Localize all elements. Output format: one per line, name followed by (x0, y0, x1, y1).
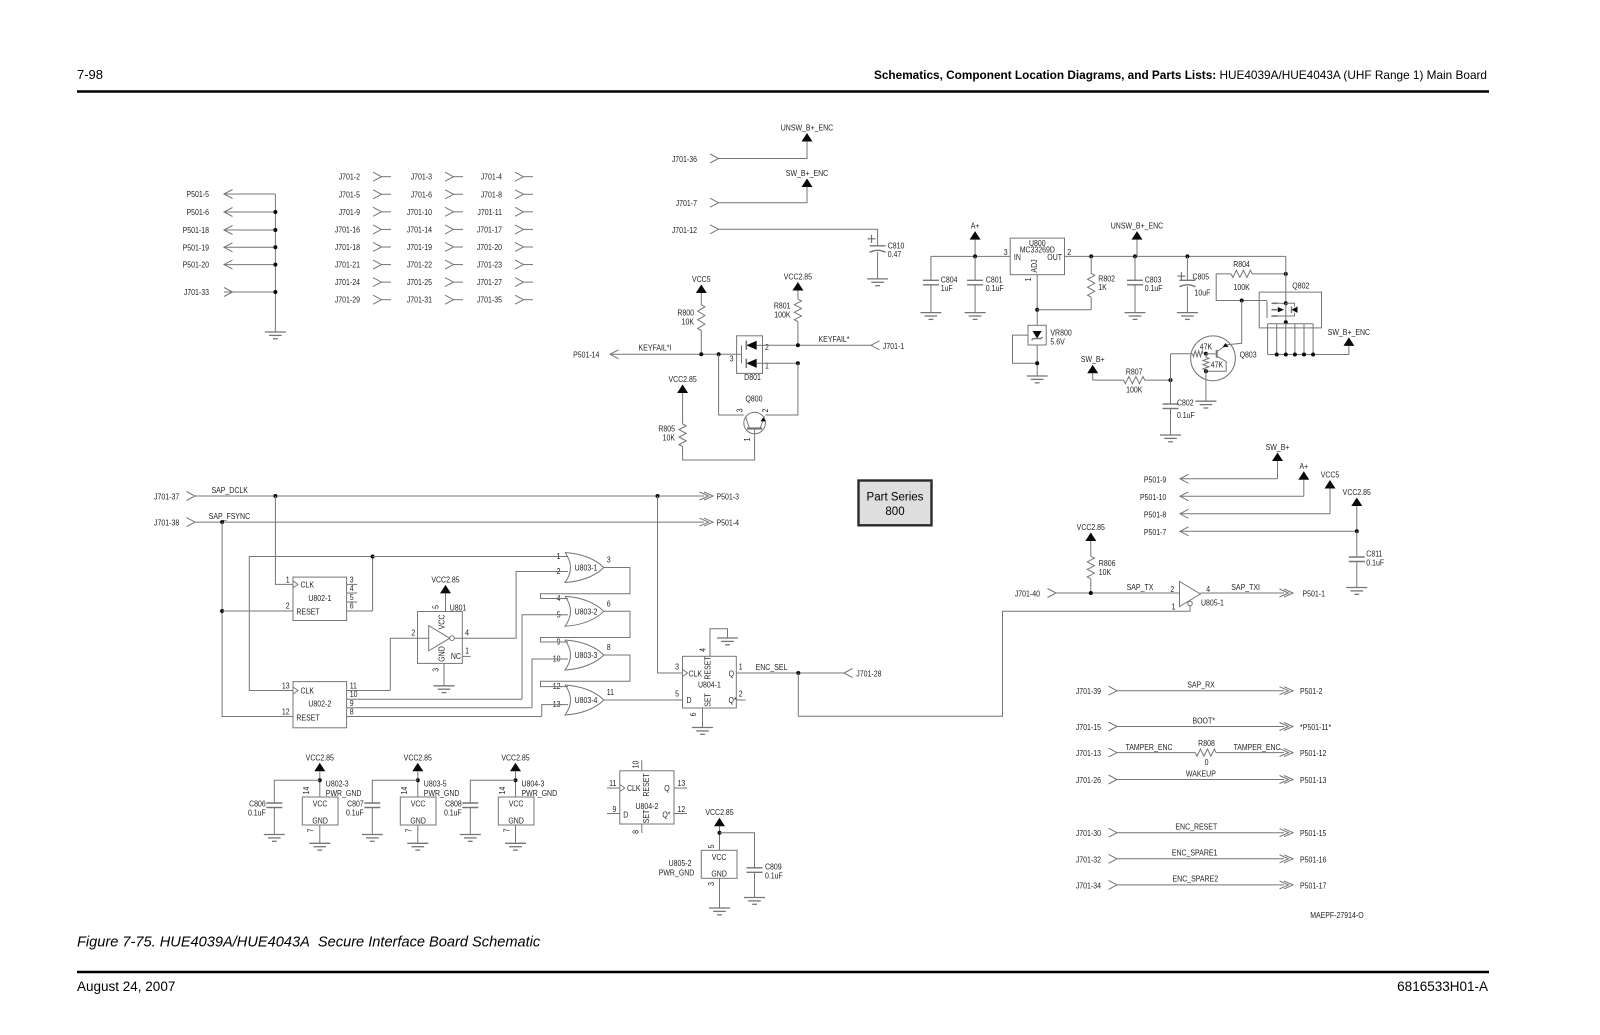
svg-text:GND: GND (410, 816, 426, 826)
svg-text:GND: GND (312, 816, 328, 826)
svg-text:U802-3: U802-3 (326, 779, 349, 789)
svg-text:J701-39: J701-39 (1076, 687, 1101, 697)
svg-text:Part Series: Part Series (867, 492, 924, 504)
svg-text:J701-1: J701-1 (883, 341, 904, 351)
svg-text:10K: 10K (1099, 567, 1112, 577)
svg-text:UNSW_B+_ENC: UNSW_B+_ENC (781, 123, 834, 133)
svg-text:3: 3 (735, 409, 745, 413)
svg-text:Q800: Q800 (745, 394, 762, 404)
svg-text:0.1uF: 0.1uF (765, 871, 783, 881)
svg-text:J701-10: J701-10 (407, 207, 432, 217)
svg-text:Schematics, Component Location: Schematics, Component Location Diagrams,… (874, 68, 1487, 82)
svg-text:3: 3 (607, 555, 611, 565)
svg-text:J701-13: J701-13 (1076, 749, 1101, 759)
svg-text:J701-8: J701-8 (481, 190, 502, 200)
svg-text:1: 1 (1172, 602, 1176, 612)
svg-text:14: 14 (497, 786, 507, 794)
svg-text:12: 12 (678, 804, 686, 814)
svg-text:J701-30: J701-30 (1076, 829, 1101, 839)
svg-text:1: 1 (557, 551, 561, 561)
svg-text:2: 2 (557, 566, 561, 576)
svg-text:0.1uF: 0.1uF (346, 808, 364, 818)
svg-text:14: 14 (399, 786, 409, 794)
svg-text:J701-24: J701-24 (335, 278, 361, 288)
svg-text:3: 3 (675, 662, 679, 672)
svg-text:U803-3: U803-3 (575, 650, 598, 660)
svg-text:MAEPF-27914-O: MAEPF-27914-O (1310, 910, 1363, 920)
svg-text:CLK: CLK (301, 580, 315, 590)
svg-text:J701-37: J701-37 (154, 492, 179, 502)
svg-text:1: 1 (465, 646, 469, 656)
svg-text:J701-20: J701-20 (477, 242, 502, 252)
svg-text:*P501-11*: *P501-11* (1300, 722, 1331, 732)
svg-text:U805-1: U805-1 (1201, 598, 1224, 608)
svg-text:U804-1: U804-1 (698, 680, 721, 690)
svg-text:P501-20: P501-20 (183, 260, 209, 270)
svg-text:0.1uF: 0.1uF (1366, 558, 1384, 568)
svg-text:J701-3: J701-3 (411, 172, 432, 182)
svg-text:A+: A+ (1299, 461, 1308, 471)
svg-text:J701-17: J701-17 (477, 225, 502, 235)
svg-text:KEYFAIL*I: KEYFAIL*I (639, 343, 672, 353)
svg-text:BOOT*: BOOT* (1192, 716, 1214, 726)
svg-text:1: 1 (742, 438, 752, 442)
svg-text:VCC: VCC (712, 852, 727, 862)
svg-text:1: 1 (1023, 278, 1033, 282)
svg-text:SAP_TX: SAP_TX (1127, 582, 1154, 592)
svg-text:13: 13 (282, 681, 290, 691)
svg-text:J701-23: J701-23 (477, 260, 502, 270)
svg-text:J701-18: J701-18 (335, 242, 360, 252)
svg-text:47K: 47K (1211, 360, 1224, 370)
svg-text:2: 2 (739, 689, 743, 699)
svg-text:P501-9: P501-9 (1144, 475, 1166, 485)
svg-text:3: 3 (706, 882, 716, 886)
svg-text:U804-3: U804-3 (522, 779, 545, 789)
svg-text:5: 5 (431, 605, 441, 609)
svg-text:13: 13 (678, 778, 686, 788)
svg-text:D: D (687, 696, 692, 706)
svg-text:7: 7 (502, 829, 512, 833)
svg-text:VCC: VCC (509, 799, 524, 809)
svg-text:0.1uF: 0.1uF (444, 808, 462, 818)
svg-text:4: 4 (465, 628, 470, 638)
svg-text:P501-19: P501-19 (183, 243, 209, 253)
svg-text:1K: 1K (1098, 282, 1107, 292)
svg-text:3: 3 (1004, 247, 1008, 257)
svg-text:P501-1: P501-1 (1303, 589, 1325, 599)
svg-text:VCC: VCC (411, 799, 426, 809)
svg-text:J701-6: J701-6 (411, 190, 432, 200)
svg-text:NC: NC (451, 652, 461, 662)
svg-text:VCC2.85: VCC2.85 (784, 272, 812, 282)
svg-text:P501-12: P501-12 (1300, 749, 1326, 759)
svg-text:VCC2.85: VCC2.85 (1077, 522, 1105, 532)
svg-text:3: 3 (730, 354, 734, 364)
svg-text:6: 6 (607, 599, 611, 609)
svg-text:D: D (623, 810, 628, 820)
svg-text:J701-28: J701-28 (856, 669, 881, 679)
svg-text:11: 11 (607, 687, 614, 697)
svg-text:VCC2.85: VCC2.85 (404, 753, 432, 763)
svg-text:ENC_RESET: ENC_RESET (1175, 822, 1217, 832)
svg-text:RESET: RESET (703, 656, 713, 680)
svg-text:100K: 100K (1233, 282, 1250, 292)
svg-text:10K: 10K (663, 433, 676, 443)
svg-text:VCC5: VCC5 (692, 274, 711, 284)
svg-text:P501-15: P501-15 (1300, 829, 1326, 839)
svg-text:J701-19: J701-19 (407, 242, 432, 252)
svg-text:SET: SET (641, 809, 651, 823)
svg-text:5: 5 (675, 689, 679, 699)
svg-text:R807: R807 (1126, 367, 1143, 377)
svg-text:6: 6 (688, 713, 698, 717)
svg-text:D801: D801 (744, 372, 761, 382)
svg-text:J701-7: J701-7 (676, 198, 697, 208)
svg-text:U802-1: U802-1 (308, 593, 331, 603)
svg-text:C802: C802 (1177, 398, 1194, 408)
svg-text:J701-22: J701-22 (407, 260, 432, 270)
svg-text:10K: 10K (682, 317, 695, 327)
svg-text:Q*: Q* (729, 696, 737, 706)
svg-text:10: 10 (631, 761, 641, 769)
svg-text:SW_B+: SW_B+ (1266, 442, 1290, 452)
svg-text:VCC2.85: VCC2.85 (668, 374, 696, 384)
svg-text:P501-3: P501-3 (717, 492, 739, 502)
svg-text:100K: 100K (774, 310, 791, 320)
svg-text:1: 1 (739, 662, 743, 672)
svg-text:J701-36: J701-36 (672, 154, 697, 164)
svg-text:J701-12: J701-12 (672, 225, 697, 235)
svg-text:2: 2 (1067, 247, 1071, 257)
svg-text:Q*: Q* (662, 810, 670, 820)
svg-text:J701-35: J701-35 (477, 295, 502, 305)
svg-text:CLK: CLK (301, 686, 315, 696)
svg-text:Q: Q (664, 784, 669, 794)
svg-text:J701-29: J701-29 (335, 295, 360, 305)
svg-text:ENC_SEL: ENC_SEL (756, 662, 788, 672)
svg-text:VCC2.85: VCC2.85 (431, 575, 459, 585)
svg-text:2: 2 (760, 409, 770, 413)
svg-text:800: 800 (885, 506, 904, 518)
svg-text:1uF: 1uF (941, 283, 953, 293)
svg-text:U803-5: U803-5 (424, 779, 447, 789)
svg-text:J701-14: J701-14 (407, 225, 433, 235)
svg-text:R804: R804 (1233, 259, 1250, 269)
svg-text:J701-27: J701-27 (477, 278, 502, 288)
svg-text:Figure 7-75. HUE4039A/HUE4043A: Figure 7-75. HUE4039A/HUE4043A Secure In… (77, 935, 541, 951)
svg-text:KEYFAIL*: KEYFAIL* (819, 334, 850, 344)
svg-text:PWR_GND: PWR_GND (659, 868, 695, 878)
svg-text:Q: Q (729, 669, 734, 679)
svg-text:J701-40: J701-40 (1015, 589, 1040, 599)
svg-text:C805: C805 (1193, 272, 1210, 282)
svg-text:J701-16: J701-16 (335, 225, 360, 235)
svg-text:IN: IN (1014, 252, 1021, 262)
svg-text:J701-11: J701-11 (477, 207, 502, 217)
svg-text:1: 1 (765, 361, 769, 371)
svg-text:ENC_SPARE1: ENC_SPARE1 (1172, 848, 1218, 858)
svg-text:VCC5: VCC5 (1321, 470, 1340, 480)
svg-text:P501-18: P501-18 (183, 225, 209, 235)
svg-text:10uF: 10uF (1195, 288, 1211, 298)
svg-text:TAMPER_ENC: TAMPER_ENC (1233, 742, 1281, 752)
svg-text:J701-2: J701-2 (339, 172, 360, 182)
svg-text:5.6V: 5.6V (1050, 337, 1065, 347)
svg-text:SAP_DCLK: SAP_DCLK (212, 485, 249, 495)
svg-text:GND: GND (437, 646, 447, 662)
svg-text:TAMPER_ENC: TAMPER_ENC (1125, 742, 1173, 752)
svg-text:11: 11 (609, 778, 616, 788)
svg-text:14: 14 (301, 786, 311, 794)
svg-text:P501-2: P501-2 (1300, 687, 1322, 697)
svg-text:VCC: VCC (313, 799, 328, 809)
svg-text:VCC: VCC (437, 614, 447, 629)
svg-text:100K: 100K (1126, 385, 1143, 395)
svg-text:6816533H01-A: 6816533H01-A (1397, 979, 1488, 994)
svg-text:SW_B+_ENC: SW_B+_ENC (786, 168, 829, 178)
svg-text:J701-34: J701-34 (1076, 881, 1102, 891)
svg-text:1: 1 (286, 575, 290, 585)
svg-text:GND: GND (711, 869, 727, 879)
svg-text:J701-25: J701-25 (407, 278, 432, 288)
svg-text:5: 5 (706, 845, 716, 849)
svg-text:P501-16: P501-16 (1300, 855, 1326, 865)
svg-text:0.1uF: 0.1uF (248, 808, 266, 818)
svg-text:U803-1: U803-1 (575, 563, 598, 573)
svg-text:VCC2.85: VCC2.85 (705, 808, 733, 818)
svg-text:47K: 47K (1200, 342, 1213, 352)
svg-text:A+: A+ (971, 221, 980, 231)
svg-text:7: 7 (404, 829, 414, 833)
svg-text:R808: R808 (1198, 739, 1215, 749)
svg-text:August 24, 2007: August 24, 2007 (77, 979, 175, 994)
svg-text:12: 12 (282, 707, 290, 717)
svg-text:J701-32: J701-32 (1076, 855, 1101, 865)
svg-text:P501-14: P501-14 (573, 350, 600, 360)
svg-text:UNSW_B+_ENC: UNSW_B+_ENC (1111, 221, 1164, 231)
svg-text:SAP_TXI: SAP_TXI (1231, 582, 1260, 592)
svg-text:P501-7: P501-7 (1144, 527, 1166, 537)
svg-text:P501-13: P501-13 (1300, 775, 1326, 785)
svg-text:0.1uF: 0.1uF (1145, 283, 1163, 293)
svg-text:P501-6: P501-6 (187, 207, 209, 217)
svg-text:P501-17: P501-17 (1300, 881, 1326, 891)
svg-text:ADJ: ADJ (1029, 259, 1039, 272)
svg-text:J701-33: J701-33 (184, 287, 209, 297)
svg-text:Q802: Q802 (1292, 281, 1309, 291)
svg-text:P501-8: P501-8 (1144, 510, 1166, 520)
svg-text:U804-2: U804-2 (635, 801, 658, 811)
svg-text:P501-5: P501-5 (187, 189, 209, 199)
svg-text:2: 2 (411, 628, 415, 638)
svg-text:2: 2 (765, 342, 769, 352)
svg-text:P501-4: P501-4 (717, 518, 740, 528)
svg-text:VCC2.85: VCC2.85 (1343, 487, 1371, 497)
svg-text:J701-5: J701-5 (339, 190, 360, 200)
svg-text:RESET: RESET (296, 713, 320, 723)
svg-text:ENC_SPARE2: ENC_SPARE2 (1173, 874, 1219, 884)
svg-text:J701-31: J701-31 (407, 295, 432, 305)
svg-text:U803-4: U803-4 (575, 695, 599, 705)
svg-text:SAP_FSYNC: SAP_FSYNC (209, 511, 251, 521)
svg-text:8: 8 (631, 830, 641, 834)
svg-text:0.1uF: 0.1uF (1177, 410, 1195, 420)
svg-text:J701-21: J701-21 (335, 260, 360, 270)
svg-text:U803-2: U803-2 (575, 607, 598, 617)
svg-text:J701-15: J701-15 (1076, 722, 1101, 732)
svg-text:GND: GND (508, 816, 524, 826)
svg-text:OUT: OUT (1047, 252, 1062, 262)
svg-text:VCC2.85: VCC2.85 (306, 753, 334, 763)
svg-text:CLK: CLK (627, 784, 641, 794)
svg-text:SW_B+: SW_B+ (1081, 355, 1105, 365)
svg-text:6: 6 (350, 601, 354, 611)
svg-text:CLK: CLK (689, 669, 703, 679)
svg-text:U805-2: U805-2 (669, 858, 692, 868)
svg-text:7-98: 7-98 (77, 67, 103, 82)
svg-text:J701-9: J701-9 (339, 207, 360, 217)
svg-text:RESET: RESET (296, 607, 320, 617)
svg-text:VCC2.85: VCC2.85 (501, 753, 529, 763)
svg-text:SW_B+_ENC: SW_B+_ENC (1328, 327, 1371, 337)
svg-text:U802-2: U802-2 (308, 699, 331, 709)
svg-text:J701-4: J701-4 (481, 172, 503, 182)
svg-text:3: 3 (431, 668, 441, 672)
svg-text:Q803: Q803 (1240, 350, 1257, 360)
svg-text:2: 2 (1170, 584, 1174, 594)
svg-text:2: 2 (286, 601, 290, 611)
svg-text:SAP_RX: SAP_RX (1187, 680, 1214, 690)
svg-text:4: 4 (698, 647, 708, 652)
svg-text:0.47: 0.47 (888, 249, 902, 259)
svg-text:7: 7 (306, 829, 316, 833)
svg-text:WAKEUP: WAKEUP (1186, 769, 1216, 779)
svg-text:8: 8 (350, 707, 354, 717)
svg-text:RESET: RESET (641, 773, 651, 797)
svg-text:8: 8 (607, 642, 611, 652)
svg-text:0.1uF: 0.1uF (986, 283, 1004, 293)
svg-text:0: 0 (1205, 757, 1209, 767)
svg-text:J701-26: J701-26 (1076, 775, 1101, 785)
svg-text:J701-38: J701-38 (154, 518, 179, 528)
svg-text:P501-10: P501-10 (1140, 492, 1166, 502)
svg-text:SET: SET (703, 693, 713, 707)
svg-text:9: 9 (613, 804, 617, 814)
